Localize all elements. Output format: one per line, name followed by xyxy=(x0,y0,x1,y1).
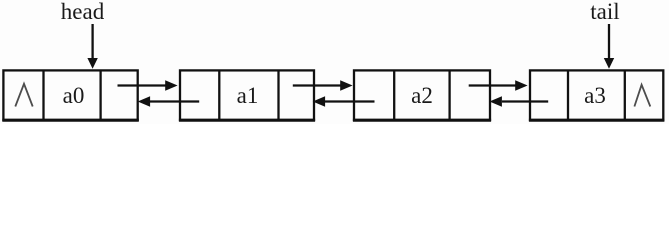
null symbol in a0 prev cell xyxy=(15,84,32,107)
bottom border emphasis node a1 xyxy=(179,119,315,122)
node a1 box xyxy=(180,70,314,120)
prev arrow a1 to a0 xyxy=(138,96,200,106)
bottom border emphasis node a2 xyxy=(353,119,491,122)
next arrow a0 to a1 xyxy=(118,80,178,90)
head pointer arrow xyxy=(87,24,97,69)
next arrow a1 to a2 xyxy=(293,80,353,90)
node a0 box xyxy=(3,70,137,120)
svg-text:a1: a1 xyxy=(237,83,259,108)
svg-text:a0: a0 xyxy=(63,83,85,108)
bottom border emphasis node a0 xyxy=(2,119,139,122)
svg-text:head: head xyxy=(61,0,105,24)
svg-text:a3: a3 xyxy=(584,83,606,108)
tail pointer arrow xyxy=(604,24,614,69)
svg-text:tail: tail xyxy=(590,0,619,24)
bottom border emphasis node a3 xyxy=(529,119,665,122)
next arrow a2 to a3 xyxy=(469,80,528,90)
svg-text:a2: a2 xyxy=(411,83,433,108)
prev arrow a2 to a1 xyxy=(313,96,375,106)
node a3 box xyxy=(530,70,663,120)
node a2 box xyxy=(354,70,490,120)
prev arrow a3 to a2 xyxy=(490,96,549,106)
null symbol in a3 next cell xyxy=(634,85,650,107)
